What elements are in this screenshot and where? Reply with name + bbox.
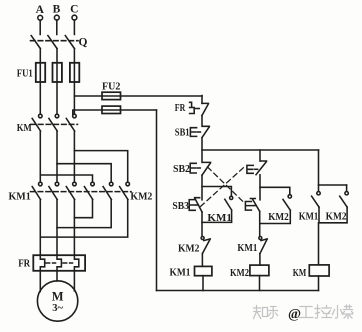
svg-text:SB2: SB2	[173, 163, 190, 175]
svg-text:SB1: SB1	[175, 127, 190, 139]
svg-text:FR: FR	[18, 258, 31, 270]
svg-text:Q: Q	[79, 37, 88, 49]
svg-text:KM1: KM1	[299, 211, 319, 223]
svg-text:KM2: KM2	[178, 242, 200, 254]
svg-text:FU1: FU1	[17, 68, 33, 79]
svg-text:KM2: KM2	[326, 211, 347, 223]
svg-text:A: A	[36, 4, 45, 16]
svg-text:M: M	[52, 290, 64, 304]
svg-text:KM1: KM1	[207, 212, 232, 224]
svg-text:KM2: KM2	[230, 267, 249, 279]
svg-text:KM: KM	[17, 122, 32, 134]
svg-text:KM1: KM1	[237, 242, 257, 254]
svg-text:FU2: FU2	[102, 81, 120, 92]
svg-text:SB3: SB3	[172, 200, 189, 212]
svg-text:@: @	[288, 307, 301, 322]
svg-text:3~: 3~	[52, 303, 63, 314]
svg-text:KM2: KM2	[268, 211, 289, 223]
svg-text:FR: FR	[175, 102, 186, 114]
svg-text:B: B	[53, 4, 61, 16]
svg-text:KM1: KM1	[170, 267, 191, 279]
svg-text:KM2: KM2	[130, 191, 152, 203]
svg-text:KM1: KM1	[9, 191, 31, 203]
svg-text:C: C	[70, 4, 78, 16]
svg-text:KM: KM	[293, 267, 307, 279]
